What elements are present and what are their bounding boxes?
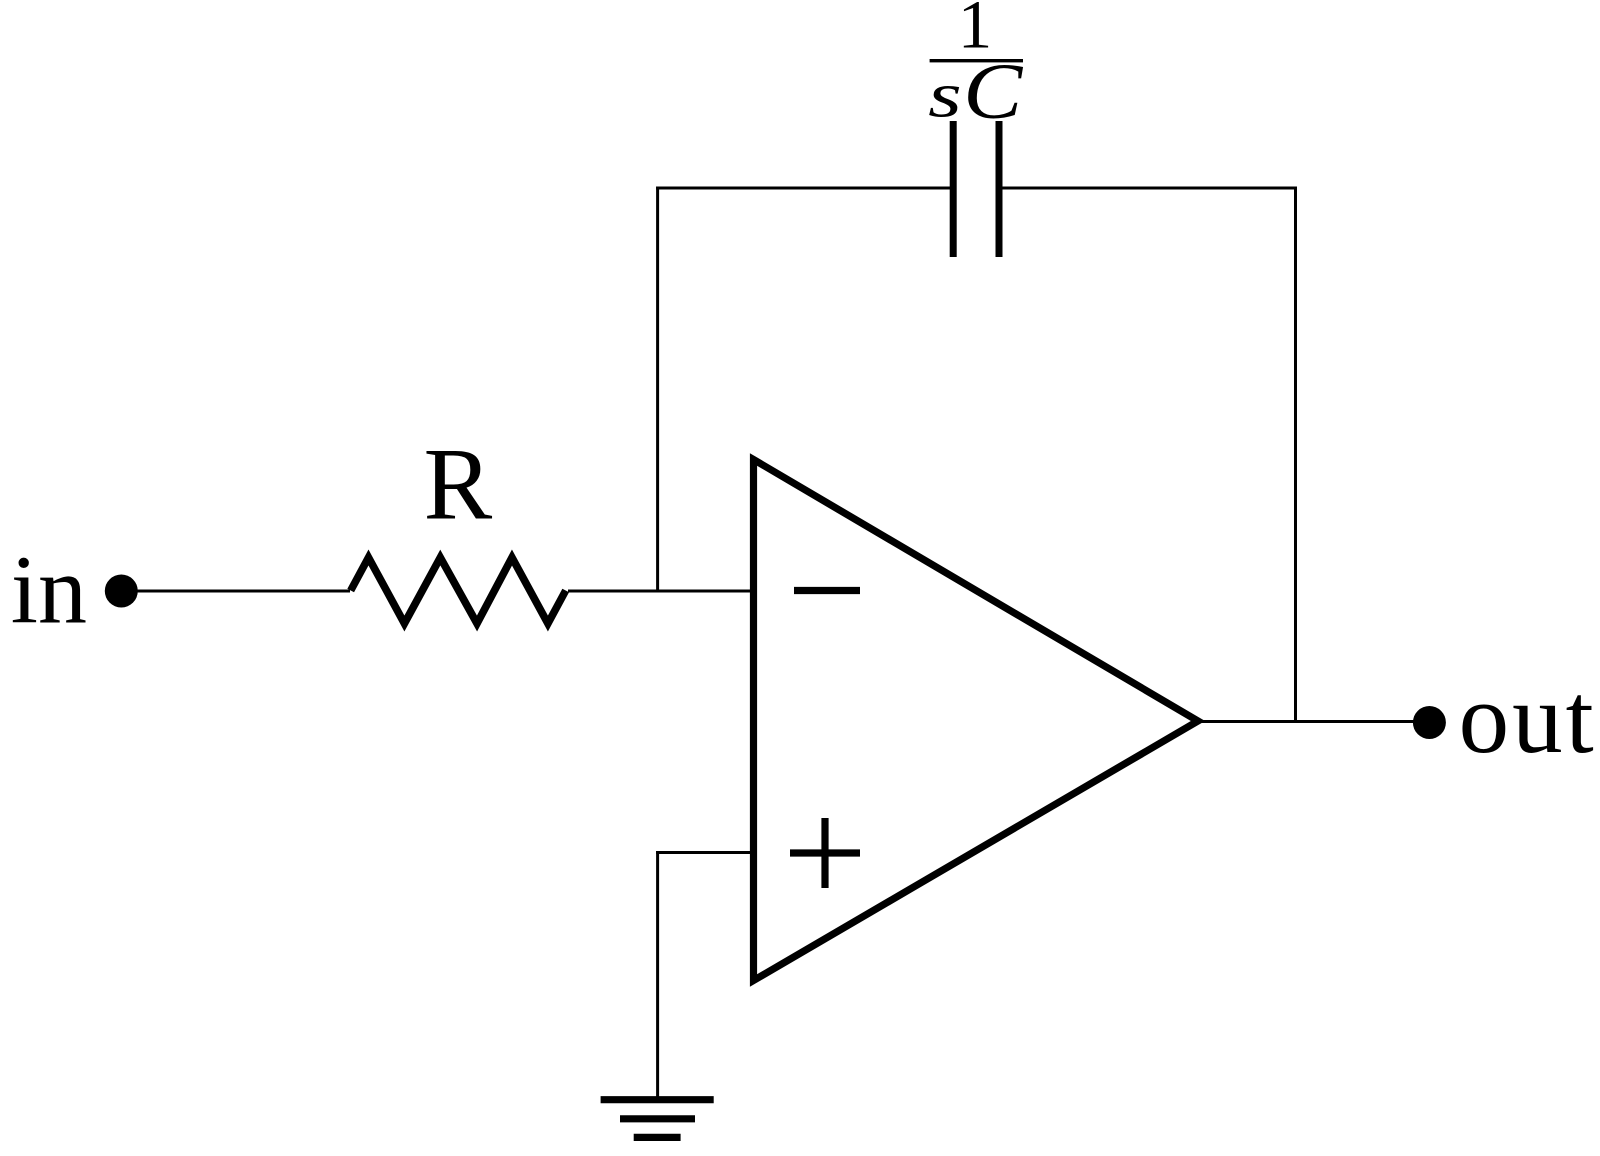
wire junction up (feedback left riser) — [656, 187, 659, 593]
ground middle bar — [620, 1115, 695, 1122]
wire plus input — [656, 851, 753, 854]
svg-text:out: out — [1459, 662, 1597, 774]
op-amp minus sign — [794, 587, 860, 594]
svg-text:s: s — [928, 59, 962, 131]
node out — [1413, 706, 1446, 739]
svg-text:C: C — [963, 48, 1023, 136]
capacitor 1/sC right plate — [996, 121, 1003, 257]
node in — [105, 575, 138, 608]
svg-text:in: in — [11, 537, 87, 645]
wire in to resistor — [121, 590, 350, 593]
op-amp plus sign — [790, 818, 860, 888]
wire feedback right drop — [1294, 187, 1297, 722]
op-amp U1 triangle — [754, 460, 1199, 981]
wire resistor to op-amp — [568, 590, 753, 593]
ground top bar — [601, 1096, 714, 1103]
wire feedback top right — [1003, 187, 1298, 190]
fraction bar — [930, 59, 1023, 62]
ground bottom bar — [634, 1134, 681, 1141]
svg-text:R: R — [423, 428, 492, 542]
wire feedback top left — [656, 187, 950, 190]
resistor R — [351, 558, 566, 624]
label sC denominator — [928, 59, 962, 131]
capacitor 1/sC left plate — [950, 121, 957, 257]
wire ground lead — [656, 851, 659, 1100]
wire output — [1197, 720, 1429, 723]
